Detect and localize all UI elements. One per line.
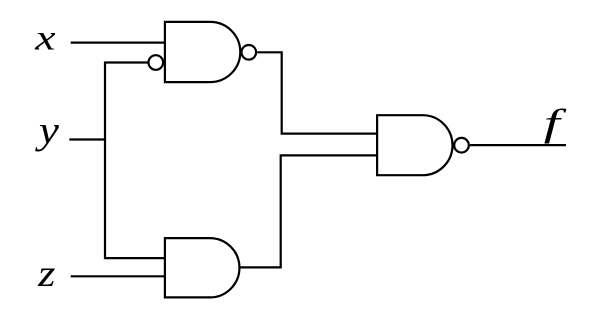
AND gate U2 (bottom) <box>165 238 240 297</box>
NAND gate U3 (output) <box>377 115 452 175</box>
wire x input to U1 top input <box>71 41 165 43</box>
svg-text:x: x <box>34 18 56 58</box>
wire U2 output to U3 bottom input <box>239 155 377 267</box>
svg-text:z: z <box>37 253 55 295</box>
wire z input to U2 bottom input <box>71 275 165 277</box>
wire U3 output to f <box>470 144 566 146</box>
wire y input stub <box>69 138 106 140</box>
output bubble of U3 <box>454 138 469 153</box>
wire y net branch (up to U1 bubble, down to U2 top input) <box>105 63 165 259</box>
input bubble on U1 lower input <box>149 55 164 70</box>
output bubble of U1 <box>242 45 257 60</box>
wire U1 output to U3 top input <box>257 52 377 133</box>
svg-text:f: f <box>544 103 567 145</box>
svg-text:y: y <box>34 109 59 152</box>
NAND gate U1 (top, inverted lower input) <box>165 22 240 82</box>
